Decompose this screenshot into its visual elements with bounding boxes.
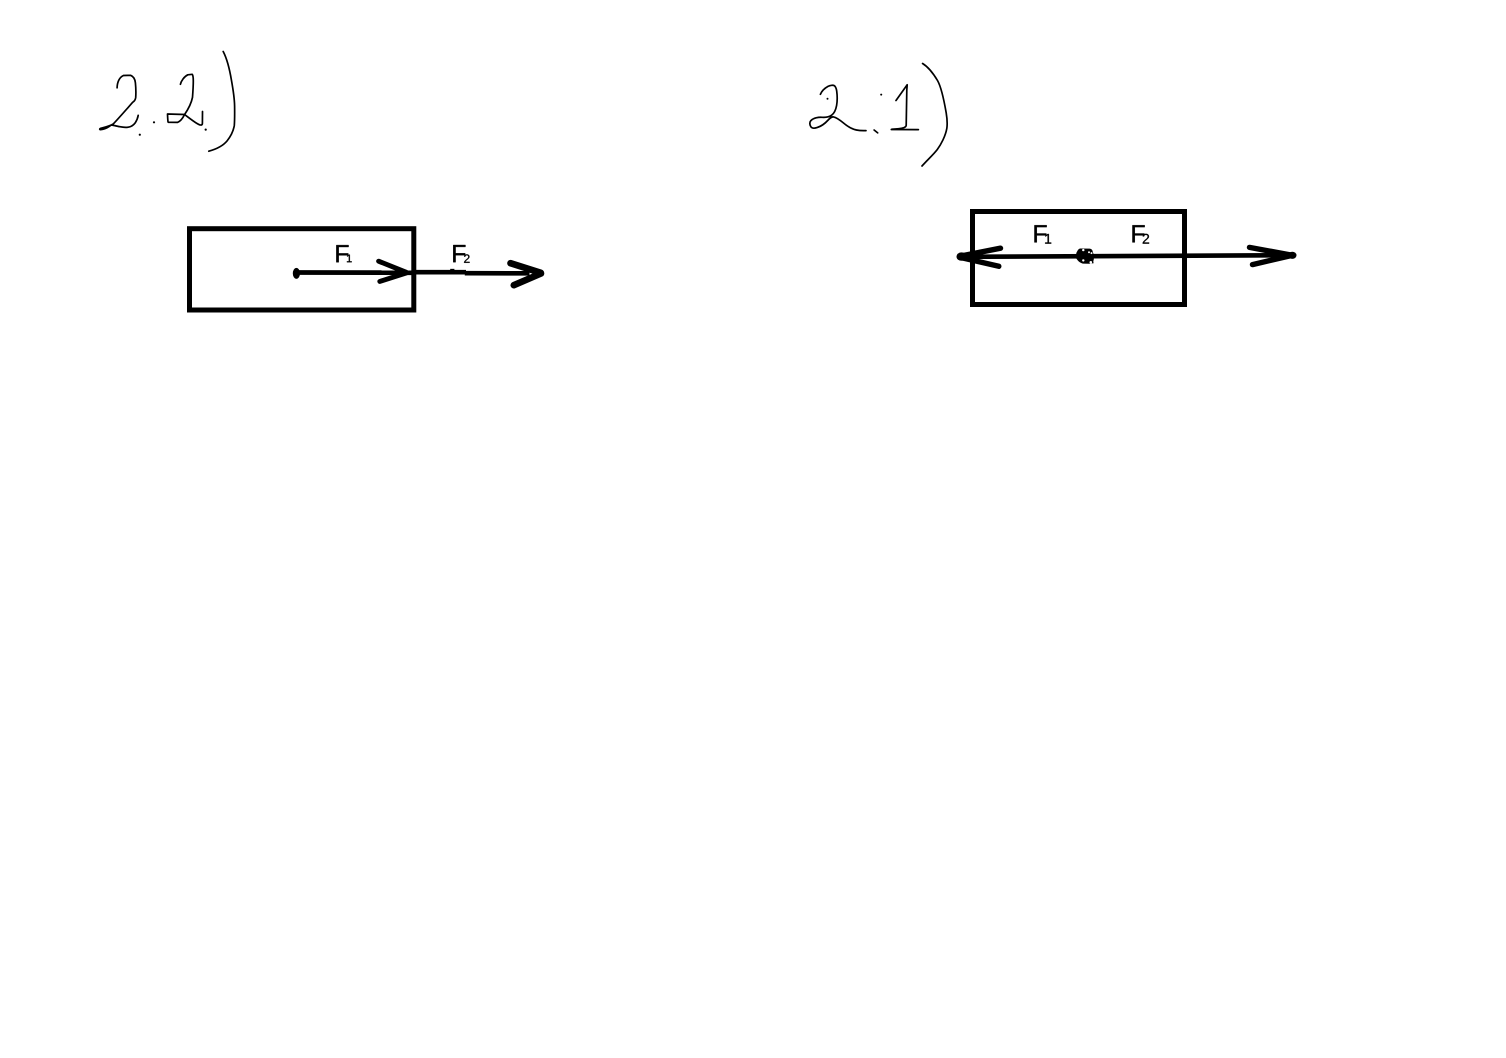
label F1 (figure 2.2)	[336, 245, 348, 262]
center scribble dot (figure 2.1)	[1076, 249, 1094, 264]
arrow F2 shaft right segment (figure 2.2)	[465, 271, 530, 276]
left arrowhead F1 (figure 2.1)	[957, 252, 967, 260]
handwritten label 2.1) : stray dot inside 2	[827, 98, 829, 100]
handwritten label 2.1) : period dash	[874, 130, 878, 133]
arrow F1 head (figure 2.2)	[379, 261, 407, 281]
handwritten label 2.2) : second digit 2	[168, 74, 203, 125]
box of figure 2.1	[973, 212, 1185, 305]
handwritten label 2.1) : stray dot above period	[880, 94, 882, 96]
handwritten label 2.1) : digit 1	[891, 85, 918, 130]
arrow F2 start bump (figure 2.2)	[450, 269, 454, 272]
handwritten label 2.2) : period dot	[153, 121, 155, 123]
start dot of arrow F1 (figure 2.2)	[293, 268, 300, 279]
arrow F2 head (figure 2.2)	[511, 263, 542, 285]
label F2 (figure 2.1)	[1132, 225, 1144, 242]
arrow F1 shaft (figure 2.2)	[296, 270, 412, 275]
box of figure 2.2	[190, 229, 414, 310]
handwritten label 2.2) : stray dot below	[139, 134, 141, 136]
label F2 (figure 2.2)	[453, 245, 465, 262]
handwritten label 2.1) : digit 2	[810, 85, 866, 130]
handwritten label 2.2) : closing parenthesis	[209, 52, 235, 152]
label F1 (figure 2.1)	[1034, 225, 1046, 242]
two-sided arrow shaft (figure 2.1)	[958, 255, 1293, 257]
handwritten label 2.2) : first digit 2	[100, 75, 138, 129]
handwritten label 2.1) : closing parenthesis	[922, 64, 947, 167]
right arrowhead F2 (figure 2.1)	[1288, 252, 1296, 259]
arrow F2 shaft left segment (figure 2.2)	[412, 270, 467, 275]
handwritten label 2.2) : stray dot after second 2	[205, 129, 207, 131]
